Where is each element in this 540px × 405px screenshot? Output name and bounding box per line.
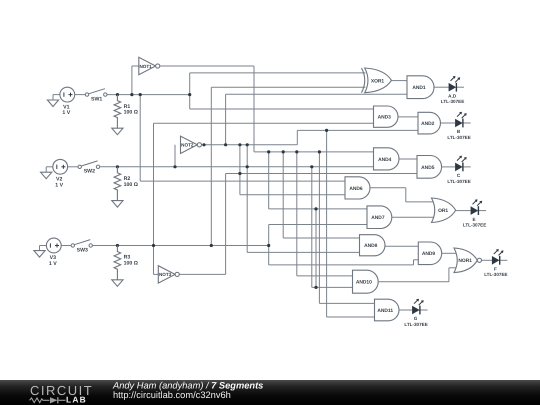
- junction at 311.8,166.8: [310, 165, 313, 168]
- wire XOR1-b riser: [210, 87, 212, 245]
- gate AND5: [417, 156, 442, 179]
- svg-text:AND1: AND1: [412, 85, 426, 91]
- wire NOR1-b riser: [448, 268, 450, 282]
- svg-text:AND11: AND11: [377, 308, 393, 314]
- gate AND4: [374, 148, 399, 170]
- wire col x319: [318, 152, 320, 304]
- wire XOR1 bottom in: [211, 86, 365, 88]
- svg-text:NOT3: NOT3: [159, 272, 172, 277]
- svg-text:F: F: [494, 267, 497, 272]
- wire notB drop: [239, 145, 241, 195]
- junction at 189.7,94.6: [188, 93, 191, 96]
- LED C (LTL-307EE): [447, 156, 470, 184]
- junction at 316.0,208.9: [314, 207, 317, 210]
- wire V2 row: [46, 166, 53, 168]
- wire NOT1 input stub: [132, 65, 139, 67]
- resistor R3: [114, 246, 138, 280]
- wire NOT2 out: [201, 144, 297, 146]
- svg-text:AND3: AND3: [378, 115, 392, 121]
- wire OR1 to LED E: [456, 210, 471, 212]
- svg-text:AND9: AND9: [422, 251, 436, 257]
- wire col x283: [282, 152, 284, 238]
- svg-text:1 V: 1 V: [55, 182, 63, 188]
- svg-text:AND2: AND2: [421, 121, 435, 127]
- inverter NOT2: [181, 136, 202, 153]
- wire AND3 bottom in: [154, 122, 374, 124]
- resistor R2: [114, 167, 138, 201]
- wire AND9 feed riser: [413, 260, 415, 265]
- resistor R1: [114, 95, 138, 129]
- svg-text:AND4: AND4: [378, 157, 392, 163]
- junction at 117.4,94.6: [116, 93, 119, 96]
- inverter NOT3: [158, 266, 179, 283]
- wire col x316: [315, 209, 317, 288]
- wire V1 branch: [189, 73, 191, 109]
- wire AND1 bottom in: [226, 93, 407, 95]
- voltage source V2: [53, 159, 68, 188]
- gate AND11: [375, 299, 399, 321]
- svg-text:LTL-307EE: LTL-307EE: [404, 322, 427, 327]
- wire AND9 b stub: [414, 259, 419, 261]
- wire AND6 out: [370, 187, 406, 189]
- switch SW1: [85, 89, 107, 103]
- junction at 239.9,173.5: [238, 172, 241, 175]
- svg-text:E: E: [473, 217, 476, 222]
- wire AND2 to LED B: [441, 122, 456, 124]
- switch SW3: [71, 240, 92, 254]
- svg-text:XOR1: XOR1: [371, 78, 385, 84]
- wire AND5 bottom in: [226, 173, 417, 175]
- svg-text:AND10: AND10: [356, 280, 372, 286]
- wire AND7 out to OR1: [392, 216, 434, 218]
- junction at 117.4,245.5: [116, 244, 119, 247]
- wire NOT1 out drop: [253, 66, 255, 152]
- wire col x268 upper: [268, 152, 270, 209]
- LED E (LTL-307EE): [463, 199, 486, 227]
- LED B (LTL-307EE): [447, 112, 470, 140]
- inverter NOT1: [139, 57, 160, 74]
- wire col x268 lower: [268, 225, 270, 265]
- junction at 204.0,144.8: [202, 143, 205, 146]
- wire AND11 top in: [319, 302, 374, 304]
- svg-text:LTL-307EE: LTL-307EE: [463, 223, 486, 228]
- wire AND6 top in: [140, 180, 345, 182]
- ground V3: [34, 251, 45, 258]
- svg-text:OR1: OR1: [438, 208, 448, 214]
- svg-text:100 Ω: 100 Ω: [124, 261, 138, 267]
- LED G (LTL-307EE): [404, 299, 427, 327]
- junction at 319.4,151.9: [318, 150, 321, 153]
- wire AND9 bottom feed: [269, 264, 414, 266]
- wire AND5 to LED C: [442, 166, 456, 168]
- wire NOR1 to LED F: [482, 259, 492, 261]
- ground V1: [47, 100, 58, 107]
- wire AND8 bottom in: [247, 251, 359, 253]
- junction at 117.4,166.8: [116, 165, 119, 168]
- switch SW2: [78, 161, 100, 175]
- svg-text:LTL-307EE: LTL-307EE: [441, 99, 464, 104]
- svg-text:100 Ω: 100 Ω: [124, 110, 138, 116]
- svg-text:LTL-307EE: LTL-307EE: [447, 179, 470, 184]
- wire AND8 out to AND9: [385, 245, 418, 247]
- wire B drop: [246, 145, 248, 253]
- gate OR1: [432, 198, 456, 223]
- wire V1 feeder down: [139, 95, 141, 182]
- wire AND10 bottom in: [312, 286, 353, 288]
- svg-text:NOT1: NOT1: [139, 64, 152, 69]
- svg-text:LTL-307EE: LTL-307EE: [447, 135, 470, 140]
- junction at 140.2,94.6: [139, 93, 142, 96]
- gate AND3: [374, 106, 399, 127]
- wire V1 row: [53, 94, 60, 96]
- gate AND2: [418, 112, 440, 134]
- wire AND3 top in: [190, 108, 374, 110]
- gate AND6: [345, 177, 370, 199]
- wire AND10 out: [378, 281, 449, 283]
- wire AND4 top in: [254, 151, 374, 153]
- wire AND10 top in: [297, 275, 353, 277]
- wire NOT2 input drop: [174, 145, 176, 167]
- LED A,D (LTL-307EE): [441, 76, 464, 104]
- gate AND9: [418, 242, 441, 265]
- wire NOT1 input drop: [131, 66, 133, 95]
- svg-text:A,D: A,D: [448, 93, 457, 98]
- wire NOR1 b stub: [449, 267, 457, 269]
- junction at 326.6,130.4: [325, 129, 328, 132]
- gate AND8: [360, 235, 386, 256]
- wire col x312: [311, 167, 313, 288]
- wire NOT3 in stub: [154, 273, 159, 275]
- wire AND7 top in: [269, 208, 367, 210]
- wire AND7 bottom in: [269, 224, 367, 226]
- junction at 268.7,245.5: [267, 244, 270, 247]
- wire NOT3 out: [179, 273, 225, 275]
- svg-text:NOR1: NOR1: [458, 258, 472, 264]
- wire AND4 out to AND5: [399, 158, 417, 160]
- wire OR1 top in stub: [406, 201, 434, 203]
- junction at 225.6,144.8: [224, 143, 227, 146]
- gate AND7: [367, 206, 392, 229]
- junction at 283.2,151.9: [282, 150, 285, 153]
- wire XOR1 out to AND1: [392, 80, 408, 82]
- junction at 175.0,166.8: [173, 165, 176, 168]
- junction at 316.0,287.4: [314, 286, 317, 289]
- ground R3: [112, 280, 123, 287]
- svg-text:G: G: [414, 316, 418, 321]
- svg-text:LTL-307EE: LTL-307EE: [484, 272, 507, 277]
- junction at 247.2,166.8: [246, 165, 249, 168]
- junction at 153.5,245.5: [152, 244, 155, 247]
- svg-text:Andy Ham (andyham) / 7 Segment: Andy Ham (andyham) / 7 Segments: [112, 380, 263, 390]
- junction at 268.7,151.9: [267, 150, 270, 153]
- svg-text:AND7: AND7: [371, 215, 385, 221]
- svg-text:1 V: 1 V: [62, 110, 70, 116]
- wire AND1 to LED A,D: [434, 86, 449, 88]
- ground R2: [112, 201, 123, 208]
- junction at 211.3,245.5: [210, 244, 213, 247]
- svg-text:SW2: SW2: [84, 169, 95, 175]
- LED F (LTL-307EE): [484, 249, 507, 277]
- wire V3 riser: [153, 123, 155, 274]
- gate AND10: [353, 270, 379, 293]
- wire AND2 bottom in: [297, 129, 418, 131]
- svg-text:LAB: LAB: [66, 395, 87, 405]
- svg-text:http://circuitlab.com/c32nv6h: http://circuitlab.com/c32nv6h: [113, 390, 231, 400]
- wire AND11 to LED G: [399, 309, 412, 311]
- wire NOT2 out jog up: [296, 130, 298, 144]
- wire V3 row: [40, 245, 47, 247]
- svg-text:SW1: SW1: [91, 97, 102, 103]
- junction at 239.9,144.8: [238, 143, 241, 146]
- svg-text:100 Ω: 100 Ω: [124, 182, 138, 188]
- wire AND9 out to NOR1: [442, 252, 457, 254]
- wire AND8 top in: [283, 237, 359, 239]
- ground R1: [112, 128, 123, 135]
- svg-text:1 V: 1 V: [49, 261, 57, 267]
- ground V2: [41, 172, 52, 179]
- gate AND1: [407, 76, 434, 99]
- wire A to XOR1 top: [190, 72, 366, 74]
- wire col x297: [296, 152, 298, 276]
- gate NOR1: [454, 248, 482, 273]
- svg-text:SW3: SW3: [77, 247, 88, 253]
- junction at 247.2,144.8: [246, 143, 249, 146]
- voltage source V3: [46, 238, 61, 267]
- logo zigzag + diode glyph: [30, 397, 66, 403]
- wire col x327: [326, 130, 328, 317]
- wire AND1-b drop: [225, 94, 227, 145]
- wire AND3 out to AND2: [398, 116, 418, 118]
- wire AND6 bottom in: [240, 194, 345, 196]
- wire NOT3 out riser: [225, 174, 227, 275]
- wire AND11 bottom in: [327, 316, 375, 318]
- svg-text:AND5: AND5: [421, 165, 435, 171]
- gate XOR1: [362, 68, 392, 93]
- voltage source V1: [60, 87, 75, 116]
- svg-text:NOT2: NOT2: [181, 143, 194, 148]
- wire NOT1 output: [160, 65, 254, 67]
- junction at 131.9,94.6: [130, 93, 133, 96]
- svg-text:AND6: AND6: [349, 186, 363, 192]
- svg-text:AND8: AND8: [364, 243, 378, 249]
- wire AND6 out drop: [405, 188, 407, 202]
- junction at 296.8,151.9: [295, 150, 298, 153]
